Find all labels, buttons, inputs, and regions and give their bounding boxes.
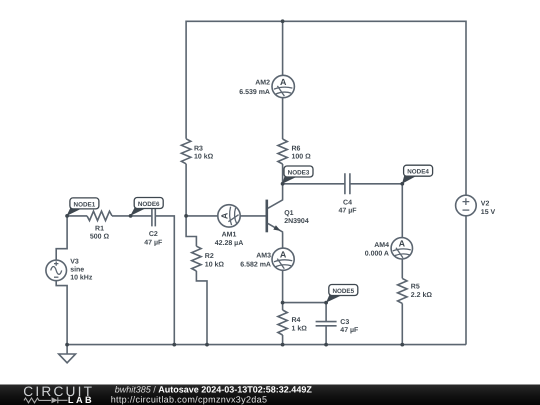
svg-text:C4: C4 — [343, 199, 352, 206]
wire NODE5 tee to C3 branch — [283, 302, 327, 304]
junction dot R4 rail — [281, 343, 285, 347]
ground — [59, 345, 76, 363]
junction dot NODE5 right — [324, 301, 328, 305]
junction dot C3 rail — [324, 343, 328, 347]
wire emitter to AM3 — [282, 232, 284, 248]
svg-text:0.000 A: 0.000 A — [365, 250, 389, 257]
wire top rail with R3 upper lead and V2 upper lead — [186, 21, 466, 195]
transistor Q1 — [267, 200, 309, 233]
wire R5 bottom to rail — [401, 303, 403, 344]
resistor R3 — [181, 139, 213, 164]
svg-text:R6: R6 — [292, 145, 301, 152]
ammeter AM1 value labels — [215, 232, 244, 247]
svg-text:C3: C3 — [340, 319, 349, 326]
svg-text:2.2 kΩ: 2.2 kΩ — [411, 291, 433, 299]
wire C4 to NODE4 junction — [350, 183, 402, 185]
footer bar — [0, 385, 540, 405]
ammeter AM3 — [272, 248, 294, 270]
svg-text:42.28 µA: 42.28 µA — [215, 240, 244, 247]
ammeter AM4 — [391, 238, 412, 259]
wire AM4 to R5 — [401, 259, 403, 278]
capacitor C4 — [345, 173, 350, 194]
svg-text:2N3904: 2N3904 — [284, 218, 309, 225]
resistor R5 — [398, 278, 433, 303]
junction dot NODE6 — [129, 214, 133, 218]
svg-text:10 kHz: 10 kHz — [70, 274, 93, 282]
wire C3 bottom lead to rail — [325, 326, 327, 345]
resistor R1 value labels — [90, 225, 110, 240]
ammeter AM2 value labels — [239, 80, 270, 96]
svg-text:47 µF: 47 µF — [338, 207, 357, 214]
wire AM2 to R6 — [282, 98, 284, 139]
capacitor C3 value labels — [340, 319, 359, 334]
voltage source V2 value labels — [481, 201, 496, 216]
wire C2 right elbow down to rail — [155, 216, 174, 345]
svg-text:15 V: 15 V — [481, 209, 496, 216]
svg-text:AM2: AM2 — [255, 80, 270, 87]
junction dot NODE4 — [400, 182, 404, 186]
junction dot C2 rail — [172, 343, 176, 347]
ammeter AM3 value labels — [240, 252, 271, 268]
svg-text:47 µF: 47 µF — [340, 327, 359, 334]
wire V3 minus jog down to rail — [56, 281, 67, 345]
wire NODE4 junction down to AM4 — [401, 184, 403, 238]
svg-text:R1: R1 — [95, 225, 104, 232]
svg-text:R5: R5 — [411, 284, 420, 291]
capacitor C3 — [316, 322, 337, 326]
svg-text:C2: C2 — [149, 231, 158, 238]
svg-text:NODE1: NODE1 — [74, 201, 96, 208]
ammeter AM4 value labels — [365, 242, 389, 257]
svg-text:Q1: Q1 — [284, 210, 293, 217]
capacitor C2 value labels — [144, 231, 163, 246]
wire bias junction jog to R2 top — [186, 216, 196, 246]
svg-text:V2: V2 — [481, 201, 490, 208]
node NODE1 — [67, 198, 99, 216]
footer share text — [111, 384, 313, 404]
wire R3 bottom to bias junction — [185, 164, 187, 216]
resistor R6 — [278, 139, 311, 164]
resistor R4 — [278, 310, 307, 335]
svg-text:NODE5: NODE5 — [332, 288, 354, 295]
svg-text:LAB: LAB — [68, 395, 94, 405]
svg-text:sine: sine — [70, 266, 84, 274]
ammeter AM1 — [218, 205, 240, 227]
junction dot R5 rail — [400, 343, 404, 347]
svg-text:47 µF: 47 µF — [144, 239, 163, 246]
wire bottom ground rail — [67, 344, 466, 346]
resistor R2 — [192, 246, 225, 271]
svg-text:6.539 mA: 6.539 mA — [239, 89, 270, 96]
svg-text:6.582 mA: 6.582 mA — [240, 261, 271, 268]
wire R1 to NODE6 junction to C2 — [112, 215, 152, 217]
voltage source V2 — [456, 195, 477, 216]
node NODE6 — [130, 198, 163, 216]
svg-text:100 Ω: 100 Ω — [292, 153, 312, 160]
resistor R1 — [87, 211, 112, 220]
wire NODE3 junction to C4 — [283, 183, 345, 185]
wire AM1 to Q1 base — [240, 215, 267, 217]
node NODE5 — [326, 285, 358, 303]
svg-text:bwhit385 / Autosave 2024-03-13: bwhit385 / Autosave 2024-03-13T02:58:32.… — [115, 384, 313, 394]
svg-text:A: A — [219, 212, 229, 219]
junction dot NODE1 — [65, 214, 69, 218]
svg-text:NODE6: NODE6 — [138, 201, 160, 208]
svg-text:V3: V3 — [70, 259, 79, 266]
ammeter AM2 — [272, 75, 294, 97]
wire R4 bottom to rail — [282, 335, 284, 345]
wire bias junction to AM1 — [186, 215, 218, 217]
svg-text:A: A — [399, 239, 406, 249]
wire collector branch top (rail to AM2) — [282, 21, 284, 75]
junction dot rail-collector — [281, 19, 285, 23]
wire AM3 to NODE5 tee to R4 — [282, 270, 284, 310]
svg-text:AM1: AM1 — [222, 232, 237, 239]
svg-text:1 kΩ: 1 kΩ — [292, 324, 308, 332]
wire C3 top lead — [325, 303, 327, 322]
junction dot bias — [184, 214, 188, 218]
wire R6 to NODE3 junction to collector — [282, 164, 284, 200]
footer CircuitLab logo — [23, 384, 94, 405]
svg-text:R3: R3 — [194, 145, 203, 152]
wire NODE1 junction down jog to V3 plus — [56, 216, 67, 260]
wire R2 bottom jog to rail — [196, 271, 207, 345]
svg-text:AM3: AM3 — [256, 252, 271, 259]
capacitor C2 — [152, 205, 155, 226]
svg-text:NODE4: NODE4 — [407, 169, 429, 176]
node NODE3 — [282, 166, 313, 184]
capacitor C4 value labels — [338, 199, 357, 214]
svg-text:A: A — [280, 77, 287, 87]
junction dot ground — [65, 343, 69, 347]
svg-text:R2: R2 — [205, 253, 214, 260]
svg-text:http://circuitlab.com/cpmznvx3: http://circuitlab.com/cpmznvx3y2da5 — [111, 394, 268, 404]
svg-text:10 kΩ: 10 kΩ — [205, 260, 225, 268]
wire NODE1 junction to R1 — [67, 215, 87, 217]
node NODE4 — [402, 165, 433, 184]
svg-text:10 kΩ: 10 kΩ — [194, 152, 214, 160]
junction dot NODE3 — [281, 182, 285, 186]
svg-text:AM4: AM4 — [374, 242, 389, 249]
junction dot NODE5 left — [281, 301, 285, 305]
svg-text:A: A — [280, 250, 287, 260]
voltage source V3 value labels — [70, 259, 93, 282]
svg-text:NODE3: NODE3 — [288, 169, 310, 176]
junction dot R2 rail — [205, 343, 209, 347]
voltage source V3 — [46, 260, 67, 281]
wire V2 bottom to rail — [465, 216, 467, 345]
svg-text:R4: R4 — [292, 317, 301, 324]
svg-text:500 Ω: 500 Ω — [90, 234, 110, 241]
